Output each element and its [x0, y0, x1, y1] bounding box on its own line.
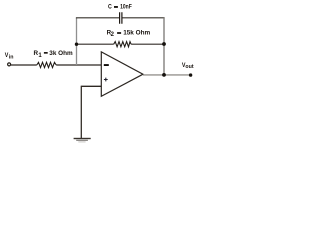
- svg-text:10nF: 10nF: [120, 4, 132, 11]
- terminal Vin: [8, 63, 11, 66]
- ground: [74, 138, 91, 139]
- svg-text:15k Ohm: 15k Ohm: [123, 30, 150, 37]
- wire feedback left vertical: [76, 18, 78, 65]
- wire non-inverting input: [81, 85, 101, 87]
- wire R2 branch horizontal: [77, 43, 165, 45]
- svg-text:out: out: [185, 64, 193, 70]
- pin minus: [104, 64, 109, 66]
- node junction right upper: [162, 42, 166, 46]
- resistor R2: [114, 42, 131, 47]
- terminal Vout: [189, 73, 192, 76]
- pin plus: [104, 78, 108, 82]
- node junction left (feedback tap): [75, 43, 78, 46]
- svg-text:C: C: [108, 4, 112, 11]
- wire top capacitor branch: [76, 17, 165, 19]
- wire input horizontal from Vin terminal to op-amp inverting input: [11, 64, 102, 66]
- svg-text:2: 2: [111, 32, 115, 38]
- svg-text:in: in: [9, 55, 14, 61]
- wire ground vertical: [80, 86, 82, 139]
- svg-text:3k Ohm: 3k Ohm: [49, 50, 72, 57]
- wire output: [143, 74, 191, 76]
- svg-text:1: 1: [38, 53, 42, 59]
- capacitor C: [120, 12, 122, 24]
- node junction output: [162, 73, 166, 77]
- resistor R1: [37, 62, 56, 67]
- op-amp U1: [101, 52, 143, 96]
- wire feedback right vertical: [163, 18, 165, 75]
